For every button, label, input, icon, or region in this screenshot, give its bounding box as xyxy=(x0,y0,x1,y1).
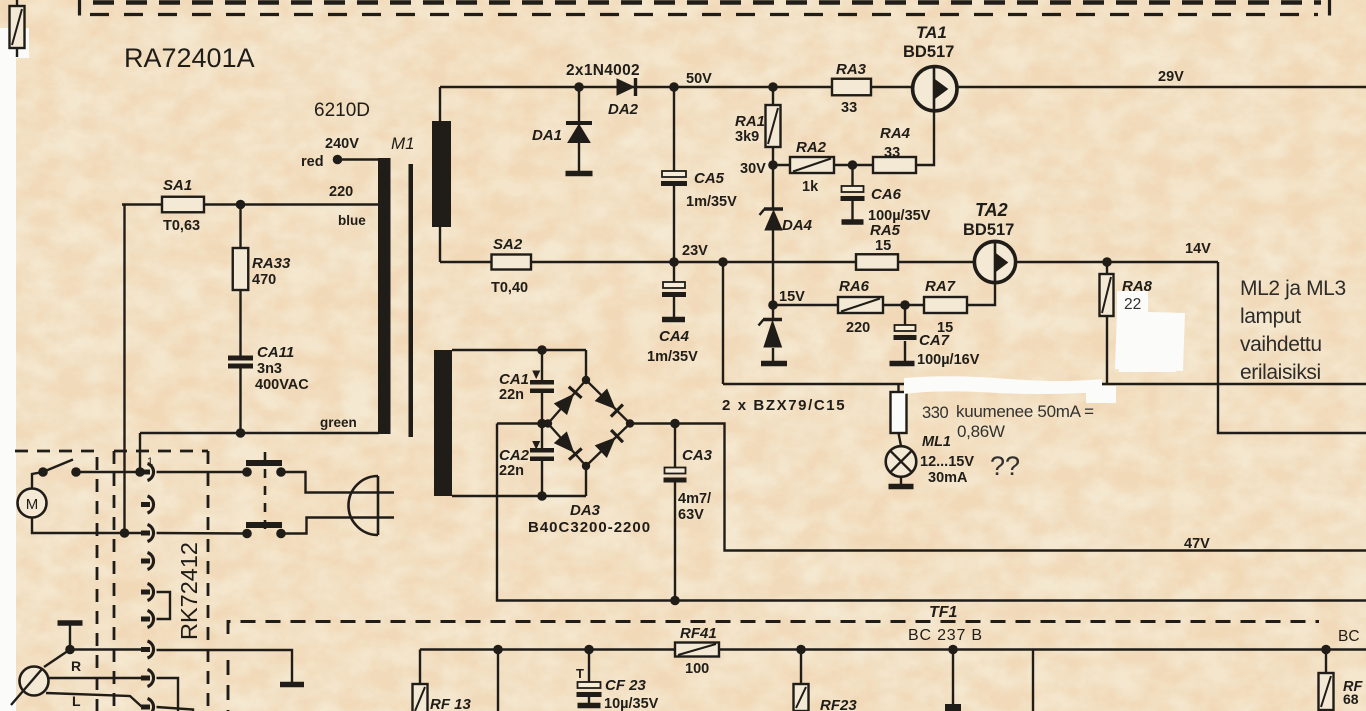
wire lamp to ground xyxy=(900,477,902,484)
svg-text:SA1: SA1 xyxy=(163,177,192,194)
svg-text:0,86W: 0,86W xyxy=(957,422,1005,441)
junction green-switch xyxy=(135,467,145,477)
svg-text:ML1: ML1 xyxy=(922,434,951,450)
wire CA7 to ground xyxy=(904,341,906,361)
junction CA2 bottom xyxy=(537,491,547,501)
terminal dot red 240V xyxy=(333,155,343,165)
moving contact bar lower xyxy=(246,522,282,528)
svg-text:47V: 47V xyxy=(1184,536,1210,552)
svg-text:3k9: 3k9 xyxy=(735,129,759,145)
svg-text:100µ/16V: 100µ/16V xyxy=(917,352,980,368)
wire pin7 to chassis ground xyxy=(157,650,293,682)
wire RA8 down xyxy=(1106,316,1108,384)
wire 15V node to RA6 xyxy=(773,304,838,306)
junction CA5 bottom xyxy=(669,257,679,267)
resistor RA8 22 xyxy=(1100,274,1114,316)
svg-text:33: 33 xyxy=(841,100,857,116)
svg-text:2 x BZX79/C15: 2 x BZX79/C15 xyxy=(722,397,846,414)
wire resistor to lamp xyxy=(899,433,902,446)
motor M xyxy=(18,489,47,518)
wire to RF23 xyxy=(800,650,802,685)
junction CA5 top xyxy=(669,82,679,92)
svg-text:RF23: RF23 xyxy=(820,697,857,711)
svg-text:100: 100 xyxy=(685,661,709,677)
ground CA4 xyxy=(662,317,685,323)
svg-text:??: ?? xyxy=(990,451,1020,481)
svg-text:240V: 240V xyxy=(325,136,359,152)
switch node dot left xyxy=(38,467,48,477)
resistor RA5 15 xyxy=(856,254,898,270)
wire lamp feed horizontal xyxy=(723,383,1366,385)
wire CA4 to ground xyxy=(673,295,675,318)
svg-text:1: 1 xyxy=(147,456,153,468)
resistor RA3 33 xyxy=(832,79,871,96)
mechanical link dashed xyxy=(264,452,267,531)
moving contact bar upper xyxy=(246,460,282,466)
lamp ML1 xyxy=(886,446,917,477)
svg-text:DA1: DA1 xyxy=(532,127,562,144)
polarity mark CA1 xyxy=(533,371,540,378)
wire node to CA7 xyxy=(904,305,906,326)
mains switch lever xyxy=(44,460,73,472)
wire rail to secondary winding top xyxy=(439,87,441,121)
wire 0V to bridge left vertex xyxy=(497,422,548,424)
wire RA6 to RA7 xyxy=(883,304,924,306)
dashed box RK72412 connector left edge xyxy=(113,451,116,711)
svg-text:2x1N4002: 2x1N4002 xyxy=(566,62,640,79)
svg-text:330: 330 xyxy=(922,404,949,422)
svg-text:DA2: DA2 xyxy=(608,101,639,118)
contact dot xyxy=(242,467,252,477)
junction RA1 top xyxy=(768,82,778,92)
capacitor CA2 22n xyxy=(530,448,554,453)
dashed box motor switch xyxy=(15,451,97,711)
wire 23V rail / 14V line xyxy=(440,261,1218,263)
polarity mark CA2 xyxy=(533,442,540,449)
svg-text:63V: 63V xyxy=(678,507,704,523)
svg-text:T: T xyxy=(576,666,584,681)
dashed border line (upper) xyxy=(93,0,1321,5)
resistor RF41 100 xyxy=(675,643,719,657)
resistor 330 (lamp series) xyxy=(891,392,907,433)
zener diode DA4 xyxy=(764,207,783,211)
resistor RA33 470 xyxy=(233,248,249,290)
ground CA7 xyxy=(890,361,915,367)
capacitor CA3 4m7/63V xyxy=(665,468,686,474)
ground DA5 xyxy=(761,361,787,367)
resistor RA7 15 xyxy=(924,297,967,313)
junction phono ground xyxy=(65,645,75,655)
dashed border left corner bracket xyxy=(78,0,81,16)
wire green down to switch line xyxy=(139,433,141,472)
svg-text:BC 237 B: BC 237 B xyxy=(908,627,983,644)
svg-text:RA4: RA4 xyxy=(880,125,911,142)
wire switch to pin 1 xyxy=(76,471,146,473)
ground symbol top bar xyxy=(58,620,83,626)
wire CA6 to ground xyxy=(851,199,853,220)
wire SA1 node to RA33 xyxy=(239,205,241,250)
svg-text:23V: 23V xyxy=(682,243,708,259)
svg-text:22n: 22n xyxy=(499,387,524,403)
wire pin3 to contact xyxy=(157,532,248,535)
svg-text:TA1: TA1 xyxy=(916,23,947,42)
wire to CA1 xyxy=(541,350,543,382)
svg-text:68: 68 xyxy=(1343,691,1359,707)
wire RA4 to TA1 emitter xyxy=(916,111,934,165)
svg-text:CF 23: CF 23 xyxy=(605,677,647,694)
wire to lamp resistor xyxy=(897,384,899,393)
junction RA6/RA7/CA7 xyxy=(900,300,910,310)
wire to transistor TF1 xyxy=(952,650,954,705)
switch node dot right xyxy=(71,467,81,477)
connector pin 5 xyxy=(141,590,150,595)
bridge diode top-right xyxy=(596,389,615,408)
svg-text:ML2 ja ML3: ML2 ja ML3 xyxy=(1240,277,1346,300)
capacitor CA11 3n3 xyxy=(228,356,253,361)
dashed border box bottom edge xyxy=(90,13,1318,16)
wire contact to speaker upper xyxy=(281,472,394,493)
ground CA6 xyxy=(842,219,864,225)
svg-text:BD517: BD517 xyxy=(963,221,1014,239)
wire DA4 to 15V node xyxy=(772,230,774,305)
pickup needle xyxy=(11,669,42,705)
svg-text:15: 15 xyxy=(875,238,891,254)
wire contact to speaker lower xyxy=(281,518,394,534)
resistor RF68 xyxy=(1319,673,1334,710)
svg-text:30mA: 30mA xyxy=(928,470,968,486)
transformer secondary 1 bar xyxy=(432,121,451,227)
junction CA1 top xyxy=(537,345,547,355)
resistor RA6 220 xyxy=(838,297,883,313)
fuse SA1 xyxy=(162,197,204,213)
transformer primary winding bar xyxy=(378,158,391,434)
white margin strip left edge xyxy=(0,28,16,711)
wire SA1 to primary (220/blue) xyxy=(203,203,379,205)
connector pin 9 xyxy=(141,705,150,710)
transformer core bar xyxy=(409,164,414,437)
svg-text:CA2: CA2 xyxy=(499,447,530,464)
wire pin1 to contact xyxy=(157,471,248,473)
wire 23V rail to CA4 xyxy=(673,262,675,283)
svg-text:DA3: DA3 xyxy=(570,502,601,519)
svg-text:50V: 50V xyxy=(686,71,712,87)
svg-text:RA33: RA33 xyxy=(252,255,291,272)
svg-text:14V: 14V xyxy=(1185,241,1211,257)
svg-text:22n: 22n xyxy=(499,463,524,479)
svg-text:DA4: DA4 xyxy=(782,217,813,234)
junction CA3 bottom xyxy=(670,596,680,606)
wire DA5 to ground xyxy=(772,348,774,361)
svg-text:CA7: CA7 xyxy=(919,332,950,349)
connector pin 1 xyxy=(141,470,150,475)
svg-text:BD517: BD517 xyxy=(903,43,954,61)
wire motor top xyxy=(32,472,43,489)
svg-text:M: M xyxy=(26,496,39,513)
wire to RF68 xyxy=(1325,650,1327,674)
wire node to CA6 xyxy=(851,165,853,187)
white-out patch over lamp feed wire xyxy=(904,376,1102,394)
capacitor CA4 1m/35V xyxy=(663,282,685,288)
resistor top-left margin xyxy=(10,6,25,48)
wire TF1 supply rail xyxy=(420,648,1366,650)
wire ground stem xyxy=(69,623,71,649)
svg-text:B40C3200-2200: B40C3200-2200 xyxy=(528,519,651,536)
connector pin 8 xyxy=(141,676,150,681)
resistor RF23 xyxy=(794,684,809,711)
wire 50V-29V top rail xyxy=(440,86,1366,88)
wire DA1 anode to ground xyxy=(578,142,580,171)
capacitor CF23 10u/35V xyxy=(578,682,601,688)
svg-text:1k: 1k xyxy=(802,179,819,195)
transistor TF1 (clipped) xyxy=(945,704,961,711)
wire rail corner down to RF13 xyxy=(419,650,421,685)
wire CA2 down xyxy=(541,459,543,496)
diode DA2 1N4002 xyxy=(617,79,634,95)
svg-text:RF41: RF41 xyxy=(680,625,717,642)
svg-text:1m/35V: 1m/35V xyxy=(647,349,698,365)
svg-text:green: green xyxy=(320,415,357,430)
bridge right vertex xyxy=(626,419,634,427)
svg-text:30V: 30V xyxy=(740,161,766,177)
bridge diode bottom-right xyxy=(596,438,615,457)
svg-text:15V: 15V xyxy=(779,289,805,305)
svg-text:RA6: RA6 xyxy=(839,278,870,295)
contact dot xyxy=(276,467,286,477)
svg-text:CA11: CA11 xyxy=(257,344,294,361)
junction SA1/RA33 xyxy=(236,200,246,210)
dashed border right corner bracket xyxy=(1328,0,1331,16)
wire 0V rail xyxy=(497,424,1366,601)
svg-text:10µ/35V: 10µ/35V xyxy=(604,696,659,711)
bridge diode bottom-left xyxy=(555,432,574,452)
junction 15V node xyxy=(768,300,778,310)
wire secondary2 top to bridge xyxy=(452,349,586,351)
wire bridge bottom vertex down xyxy=(585,466,587,496)
wire L to pin 9 xyxy=(46,693,146,707)
contact dot xyxy=(242,529,252,539)
svg-text:RA2: RA2 xyxy=(796,139,827,156)
ground CF23 xyxy=(578,703,601,709)
svg-text:kuumenee 50mA =: kuumenee 50mA = xyxy=(956,402,1094,421)
white-out patch right of RA8 xyxy=(1115,311,1185,371)
wire red 240V tap xyxy=(342,158,379,160)
svg-text:red: red xyxy=(301,154,324,170)
wire green return xyxy=(140,432,379,434)
capacitor CA7 100u/16V xyxy=(895,325,916,331)
wire to pin 7 xyxy=(70,648,146,650)
wire mains feed vertical xyxy=(123,205,125,534)
wire rail to CA5 xyxy=(673,87,675,172)
wire down to bridge top vertex xyxy=(585,350,587,380)
wire 23V node down xyxy=(722,262,724,384)
svg-text:T0,63: T0,63 xyxy=(163,218,200,234)
svg-text:BC: BC xyxy=(1338,628,1360,645)
svg-text:CA6: CA6 xyxy=(871,186,902,203)
svg-text:T0,40: T0,40 xyxy=(491,280,528,296)
wire RA1 to 30V node xyxy=(772,147,774,165)
svg-text:33: 33 xyxy=(884,145,900,161)
wire 30V node to DA4 xyxy=(772,165,774,208)
svg-text:RA5: RA5 xyxy=(870,222,901,239)
svg-text:erilaisiksi: erilaisiksi xyxy=(1240,361,1321,384)
bridge top vertex xyxy=(582,376,590,384)
svg-text:TA2: TA2 xyxy=(975,200,1008,220)
wire bridge output to 47V rail xyxy=(631,424,1366,551)
bridge left vertex xyxy=(544,419,552,427)
svg-text:3n3: 3n3 xyxy=(257,361,282,377)
junction mains-motor xyxy=(120,528,130,538)
svg-text:CA3: CA3 xyxy=(682,447,713,464)
connector pin 6 xyxy=(141,617,150,622)
svg-text:lamput: lamput xyxy=(1240,305,1301,328)
wire branch down right xyxy=(1032,650,1034,711)
wire secondary bottom to 23V rail xyxy=(439,227,441,262)
wire bridge out to CA3 xyxy=(674,424,676,469)
wire RA2 to RA4 xyxy=(834,164,873,166)
wire CA11 to green xyxy=(239,368,241,433)
wire RA7 to TA2 emitter xyxy=(967,282,995,305)
resistor RA2 1k xyxy=(790,157,834,173)
bridge rectifier DA3 diamond xyxy=(548,380,630,466)
svg-text:RA3: RA3 xyxy=(836,61,867,78)
wire to CF23 xyxy=(588,650,590,684)
wire motor bottom xyxy=(32,518,146,534)
wire pin9 onward xyxy=(157,707,194,711)
transistor TA1 BD517 xyxy=(913,67,957,111)
bridge bottom vertex xyxy=(582,462,590,470)
svg-text:CA4: CA4 xyxy=(659,328,690,345)
wire CA3 to 0V rail xyxy=(674,480,676,601)
junction CA3 top xyxy=(670,419,680,429)
svg-text:CA1: CA1 xyxy=(499,371,529,388)
svg-text:vaihdettu: vaihdettu xyxy=(1240,333,1322,356)
junction CA1/CA2 xyxy=(537,419,547,429)
wire 14V corner down xyxy=(1218,262,1366,433)
wire CA1 to mid node xyxy=(541,391,543,424)
wire 14V to RA8 xyxy=(1106,262,1108,274)
svg-text:R: R xyxy=(71,658,81,674)
junction RA2/RA4/CA6 xyxy=(848,160,858,170)
wire pin8 onward xyxy=(157,678,179,711)
svg-text:M1: M1 xyxy=(391,134,415,153)
wire RA33 to CA11 xyxy=(239,290,241,356)
fuse SA2 xyxy=(492,255,532,270)
diode DA1 xyxy=(566,121,592,125)
transistor TA2 BD517 xyxy=(974,241,1015,282)
dashed box RK72412 connector right edge + top xyxy=(114,451,208,711)
svg-text:470: 470 xyxy=(252,272,276,288)
svg-text:blue: blue xyxy=(338,213,366,228)
svg-text:220: 220 xyxy=(329,184,353,200)
wire 50V rail to DA1 xyxy=(578,87,580,122)
svg-text:1m/35V: 1m/35V xyxy=(686,194,737,210)
svg-text:6210D: 6210D xyxy=(314,100,370,121)
svg-text:RF 13: RF 13 xyxy=(430,696,472,711)
svg-text:RK72412: RK72412 xyxy=(176,542,202,640)
connector pin 7 xyxy=(141,647,150,652)
capacitor CA5 1m/35V xyxy=(662,171,686,177)
svg-text:RA1: RA1 xyxy=(735,113,765,130)
speaker xyxy=(349,476,379,535)
svg-text:400VAC: 400VAC xyxy=(255,377,309,393)
transformer secondary 2 bar xyxy=(434,350,452,496)
svg-text:SA2: SA2 xyxy=(493,236,523,253)
svg-text:CA5: CA5 xyxy=(694,170,725,187)
wire CA5 to 23V rail xyxy=(673,184,675,262)
junction 30V node xyxy=(768,160,778,170)
bridge diode top-left xyxy=(555,395,574,415)
connector pin 4 xyxy=(141,559,150,564)
junction CA11/green xyxy=(236,428,246,438)
wire secondary2 bottom xyxy=(452,495,586,497)
svg-text:RA8: RA8 xyxy=(1122,278,1153,295)
wire 15V node to DA5 xyxy=(772,305,774,318)
svg-text:4m7/: 4m7/ xyxy=(678,491,711,507)
resistor RA4 33 xyxy=(873,157,916,173)
connector pin 2 xyxy=(141,502,150,507)
resistor RA1 3k9 xyxy=(766,105,781,147)
wire SA1 left xyxy=(122,203,163,205)
svg-text:TF1: TF1 xyxy=(929,604,958,621)
connector pin 3 xyxy=(141,531,150,536)
svg-text:RA7: RA7 xyxy=(925,278,956,295)
ground DA1 xyxy=(566,171,593,177)
junction DA1 xyxy=(574,82,584,92)
wire branch down xyxy=(497,650,499,711)
wire R to pin 8 xyxy=(48,677,146,679)
svg-text:RA72401A: RA72401A xyxy=(124,43,255,73)
svg-text:220: 220 xyxy=(846,320,870,336)
contact dot xyxy=(276,529,286,539)
junction 23V feed xyxy=(718,257,728,267)
ground bar xyxy=(280,682,304,688)
ground ML1 xyxy=(889,484,914,490)
dashed boundary TF1 xyxy=(228,622,1319,635)
phono pickup circle xyxy=(44,650,70,668)
wire rail to RA1 xyxy=(772,87,774,105)
capacitor CA1 22n xyxy=(530,380,554,385)
capacitor CA6 100u/35V xyxy=(842,186,864,192)
svg-text:12...15V: 12...15V xyxy=(920,454,974,470)
wire mid node to CA2 xyxy=(541,424,543,451)
svg-text:29V: 29V xyxy=(1158,69,1184,85)
wire 30V node to RA2 xyxy=(773,164,790,166)
resistor RF13 xyxy=(413,684,428,711)
bracket linking pins 5-6 xyxy=(157,592,171,619)
svg-text:22: 22 xyxy=(1124,296,1141,313)
junction RA8 top xyxy=(1102,257,1112,267)
zener diode DA5 xyxy=(763,318,782,322)
